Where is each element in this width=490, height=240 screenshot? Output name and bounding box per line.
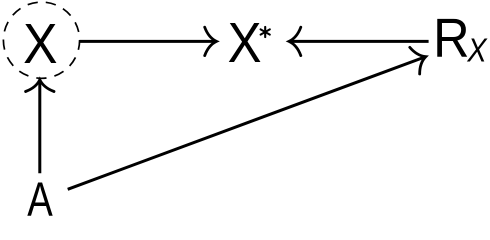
dashed circle around node X (3, 2, 79, 78)
arrow A to RX : wire (68, 57, 425, 189)
svg-text:X: X (23, 13, 57, 76)
svg-text:X: X (466, 32, 487, 70)
arrow RX to X* : head (289, 27, 301, 55)
arrow X to X* : wire (80, 40, 216, 43)
arrow RX to X* : wire (291, 40, 429, 43)
node X* : superscript asterisk (261, 27, 270, 37)
svg-text:X: X (228, 11, 262, 74)
arrow X to X* : head (205, 27, 217, 55)
svg-text:A: A (27, 174, 53, 216)
arrow A to X : head (26, 80, 54, 92)
arrow A to X : wire (38, 81, 41, 173)
svg-text:R: R (433, 7, 469, 68)
arrow A to RX : head (410, 43, 431, 74)
